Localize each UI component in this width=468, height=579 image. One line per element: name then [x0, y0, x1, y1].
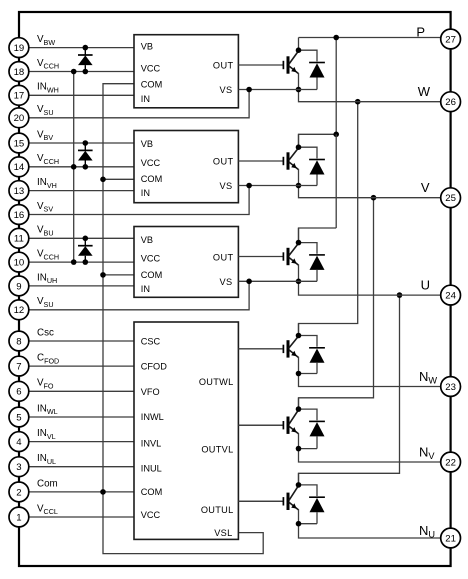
transistor Q4 (W low) — [238, 324, 298, 374]
pin 12 — [9, 300, 29, 320]
gate driver HVIC U2 — [134, 131, 238, 203]
wire N_U to pin 21 — [299, 524, 441, 538]
svg-text:6: 6 — [16, 387, 21, 398]
wire P feed V phase — [299, 134, 337, 147]
wire pin 14 V_CCH — [29, 166, 134, 168]
svg-text:7: 7 — [16, 362, 21, 373]
pin 15 — [9, 133, 29, 153]
svg-text:INWL: INWL — [37, 403, 58, 416]
wire P rail down 2 — [335, 134, 337, 228]
svg-text:VCCH: VCCH — [37, 249, 59, 262]
svg-text:NV: NV — [419, 444, 435, 461]
svg-text:VBV: VBV — [37, 129, 53, 142]
wire OUTVL gate — [238, 424, 282, 426]
junction VS sense Q3 — [246, 279, 252, 285]
wire COM rail / VSL return — [103, 84, 263, 554]
transistor Q6 (U low) — [238, 473, 298, 523]
svg-text:12: 12 — [14, 305, 25, 316]
svg-text:10: 10 — [14, 258, 25, 269]
junction Q2 collector — [296, 144, 302, 150]
svg-text:VSV: VSV — [37, 201, 53, 214]
junction U rail — [397, 292, 403, 298]
svg-text:5: 5 — [16, 412, 21, 423]
pin 21 — [441, 528, 461, 548]
bootstrap diode D1 — [78, 48, 93, 72]
svg-text:INWL: INWL — [141, 412, 164, 422]
svg-text:27: 27 — [445, 34, 456, 45]
junction D1 anode — [83, 69, 89, 75]
svg-text:P: P — [416, 25, 425, 40]
wire VS/emitter line Q3 — [238, 280, 317, 282]
wire pin 13 IN_VH — [29, 190, 134, 192]
svg-text:OUTWL: OUTWL — [199, 377, 234, 387]
junction Q1 collector — [296, 47, 302, 53]
svg-text:IN: IN — [141, 284, 150, 294]
junction W rail — [355, 99, 361, 105]
wire pin 9 IN_UH — [29, 285, 134, 287]
svg-text:1: 1 — [16, 512, 21, 523]
svg-text:VCCH: VCCH — [37, 153, 59, 166]
junction rail A row 10 — [71, 259, 77, 265]
pin 27 — [441, 29, 461, 49]
wire V phase rail — [299, 198, 374, 409]
wire W phase rail — [299, 102, 358, 336]
pin 2 — [9, 482, 29, 502]
wire pin 18 V_CCH — [29, 71, 134, 73]
junction D2 anode — [83, 164, 89, 170]
svg-text:VBW: VBW — [37, 34, 55, 47]
svg-text:18: 18 — [14, 67, 25, 78]
svg-text:VSU: VSU — [37, 296, 54, 309]
wire W to pin 26 — [299, 90, 441, 102]
svg-text:VCC: VCC — [141, 254, 161, 264]
svg-text:INVL: INVL — [37, 428, 56, 441]
freewheel diode D8 — [299, 409, 325, 449]
svg-text:OUTVL: OUTVL — [201, 444, 233, 454]
svg-text:VCC: VCC — [141, 510, 161, 520]
gate driver LVIC U4 — [134, 322, 238, 539]
wire pin 2 Com — [29, 491, 134, 493]
junction VS sense Q1 — [246, 87, 252, 93]
svg-text:CFOD: CFOD — [37, 353, 59, 366]
pin 20 — [9, 108, 29, 128]
pin 14 — [9, 157, 29, 177]
junction Q6 emitter — [296, 521, 302, 527]
svg-text:11: 11 — [14, 234, 24, 245]
wire pin 8 Csc — [29, 340, 134, 342]
svg-text:17: 17 — [14, 91, 25, 102]
wire V_S pin 20 to VS node — [29, 90, 250, 118]
pin 5 — [9, 407, 29, 427]
wire COM HVIC2 elbow — [103, 178, 134, 180]
pin 10 — [9, 252, 29, 272]
svg-text:Csc: Csc — [37, 327, 54, 338]
pin 22 — [441, 452, 461, 472]
junction COM rail pin 2 — [100, 489, 106, 495]
junction COM rail HVIC2 — [100, 177, 106, 183]
pin 4 — [9, 432, 29, 452]
pin 13 — [9, 181, 29, 201]
svg-text:INUL: INUL — [37, 453, 56, 466]
pin 9 — [9, 276, 29, 296]
svg-text:15: 15 — [14, 138, 25, 149]
svg-text:23: 23 — [445, 382, 456, 393]
wire V to pin 25 — [299, 186, 441, 198]
wire V_S pin 12 to VS node — [29, 281, 250, 310]
svg-text:13: 13 — [14, 186, 25, 197]
svg-text:26: 26 — [445, 97, 456, 108]
pin 16 — [9, 205, 29, 225]
svg-text:INVL: INVL — [141, 438, 161, 448]
svg-text:4: 4 — [16, 437, 22, 448]
junction Q5 collector — [296, 406, 302, 412]
svg-text:VFO: VFO — [37, 378, 54, 391]
junction Q6 collector — [296, 482, 302, 488]
svg-text:COM: COM — [141, 79, 162, 89]
junction D1 cathode — [83, 45, 89, 51]
wire OUTWL gate — [238, 348, 282, 350]
junction VS sense Q2 — [246, 183, 252, 189]
svg-text:16: 16 — [14, 210, 25, 221]
transistor Q2 (V high) — [238, 134, 298, 185]
junction P bus — [333, 35, 339, 41]
pin 3 — [9, 457, 29, 477]
freewheel diode D5 — [299, 147, 325, 185]
freewheel diode D6 — [299, 243, 325, 282]
wire pin 7 C_FOD — [29, 365, 134, 367]
svg-text:9: 9 — [16, 281, 21, 292]
wire pin 15 V_BV — [29, 142, 134, 144]
svg-text:VFO: VFO — [141, 387, 160, 397]
pin 17 — [9, 85, 29, 105]
svg-text:Com: Com — [37, 478, 58, 489]
junction COM rail HVIC3 — [100, 272, 106, 278]
svg-text:2: 2 — [16, 487, 21, 498]
transistor Q3 (U high) — [238, 228, 298, 281]
wire pin 5 IN_WL — [29, 416, 134, 418]
junction Q3 collector — [296, 240, 302, 246]
svg-text:14: 14 — [14, 162, 25, 173]
pin 11 — [9, 228, 29, 248]
wire pin 10 V_CCH — [29, 261, 134, 263]
transistor Q5 (V low) — [238, 398, 298, 449]
junction Q3 emitter — [296, 279, 302, 285]
wire pin 3 IN_UL — [29, 466, 134, 468]
svg-text:VBU: VBU — [37, 225, 54, 238]
svg-text:OUT: OUT — [213, 61, 234, 71]
svg-text:19: 19 — [14, 43, 25, 54]
svg-text:8: 8 — [16, 336, 21, 347]
svg-text:24: 24 — [445, 291, 456, 302]
junction V rail — [371, 195, 377, 201]
svg-text:VS: VS — [219, 85, 232, 95]
wire VS/emitter line Q2 — [238, 185, 317, 187]
svg-text:VB: VB — [141, 139, 153, 149]
wire U to pin 24 — [299, 281, 441, 295]
freewheel diode D4 — [299, 50, 325, 89]
wire V_S pin 16 to VS node — [29, 186, 250, 215]
freewheel diode D7 — [299, 336, 325, 374]
wire V_CCH rail — [73, 72, 75, 263]
svg-text:IN: IN — [141, 188, 150, 198]
wire VS/emitter line Q1 — [238, 89, 317, 91]
svg-text:INUL: INUL — [141, 464, 162, 474]
svg-text:25: 25 — [445, 193, 456, 204]
pin 24 — [441, 285, 461, 305]
junction P rail V feed — [333, 132, 339, 138]
pin 25 — [441, 188, 461, 208]
svg-text:CFOD: CFOD — [141, 362, 167, 372]
transistor Q1 (W high) — [238, 38, 298, 90]
svg-text:IN: IN — [141, 94, 150, 104]
svg-text:21: 21 — [445, 533, 456, 544]
svg-text:VCC: VCC — [141, 64, 161, 74]
wire pin 4 IN_VL — [29, 441, 134, 443]
svg-text:VSL: VSL — [214, 528, 232, 538]
gate driver HVIC U1 — [134, 35, 238, 108]
junction Q4 collector — [296, 333, 302, 339]
wire P bus — [299, 37, 441, 39]
svg-text:INWH: INWH — [37, 82, 59, 95]
svg-text:22: 22 — [445, 457, 456, 468]
wire U phase rail — [299, 295, 400, 485]
junction Q4 emitter — [296, 371, 302, 377]
svg-text:V: V — [421, 180, 430, 195]
svg-text:OUTUL: OUTUL — [201, 505, 234, 515]
wire pin 6 V_FO — [29, 390, 134, 392]
wire COM HVIC3 elbow — [103, 274, 134, 276]
junction rail A row 14 — [71, 164, 77, 170]
pin 18 — [9, 62, 29, 82]
wire P feed U phase — [299, 228, 337, 243]
junction D3 cathode — [83, 236, 89, 242]
junction D3 anode — [83, 259, 89, 265]
svg-text:COM: COM — [141, 270, 162, 280]
svg-text:VB: VB — [141, 235, 153, 245]
svg-text:VCCH: VCCH — [37, 58, 59, 71]
svg-text:INVH: INVH — [37, 177, 57, 190]
junction Q5 emitter — [296, 446, 302, 452]
pin 6 — [9, 381, 29, 401]
svg-text:COM: COM — [141, 174, 162, 184]
wire P rail down — [335, 38, 337, 135]
wire N_V to pin 22 — [299, 449, 441, 462]
junction D2 cathode — [83, 140, 89, 146]
svg-text:COM: COM — [141, 487, 162, 497]
wire N_W to pin 23 — [299, 374, 441, 387]
pin 1 — [9, 507, 29, 527]
svg-text:OUT: OUT — [213, 252, 234, 262]
pin 26 — [441, 92, 461, 112]
svg-text:NW: NW — [419, 369, 437, 386]
svg-text:U: U — [421, 277, 430, 292]
pin 7 — [9, 356, 29, 376]
svg-text:VCCL: VCCL — [37, 503, 58, 516]
wire pin 17 IN_WH — [29, 94, 134, 96]
svg-text:20: 20 — [14, 113, 25, 124]
wire pin 11 V_BU — [29, 237, 134, 239]
wire OUTUL gate — [238, 500, 282, 502]
svg-text:W: W — [418, 84, 431, 99]
wire pin 19 V_BW — [29, 47, 134, 49]
svg-text:VS: VS — [219, 277, 232, 287]
svg-text:3: 3 — [16, 462, 21, 473]
junction Q2 emitter — [296, 183, 302, 189]
pin 23 — [441, 377, 461, 397]
gate driver HVIC U3 — [134, 227, 238, 298]
svg-text:OUT: OUT — [213, 157, 234, 167]
svg-text:VB: VB — [141, 42, 153, 52]
bootstrap diode D2 — [78, 143, 93, 167]
junction rail A row 18 — [71, 69, 77, 75]
bootstrap diode D3 — [78, 238, 93, 262]
svg-text:INUH: INUH — [37, 272, 57, 285]
svg-text:CSC: CSC — [141, 336, 161, 346]
junction Q1 emitter — [296, 87, 302, 93]
freewheel diode D9 — [299, 485, 325, 524]
pin 8 — [9, 331, 29, 351]
svg-text:VS: VS — [219, 181, 232, 191]
pin 19 — [9, 38, 29, 58]
svg-text:VCC: VCC — [141, 158, 161, 168]
svg-text:VSU: VSU — [37, 104, 54, 117]
svg-text:NU: NU — [419, 523, 435, 540]
wire pin 1 V_CCL — [29, 516, 134, 518]
